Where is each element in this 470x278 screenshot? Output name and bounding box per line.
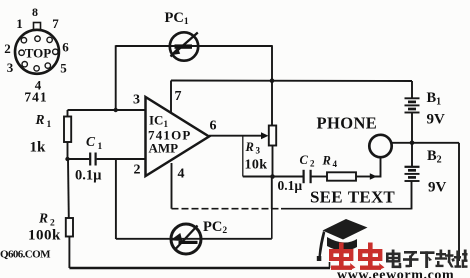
svg-text:741: 741 — [24, 90, 47, 105]
pin dot 6 — [53, 49, 58, 54]
pin dot 1 — [21, 38, 26, 43]
svg-text:PC1: PC1 — [165, 10, 189, 27]
watermark chongchong red characters — [329, 243, 385, 270]
wire top rail — [116, 45, 272, 47]
svg-text:6: 6 — [62, 40, 69, 55]
svg-text:10k: 10k — [245, 158, 268, 173]
wire feedback vertical — [271, 45, 273, 126]
capacitor C2 — [304, 170, 327, 183]
node junction R3 bottom — [270, 174, 275, 179]
svg-text:0.1µ: 0.1µ — [75, 168, 102, 184]
svg-text:C: C — [300, 153, 309, 167]
IC package top-view circle 741 — [15, 23, 59, 74]
ground rail bottom — [69, 267, 330, 270]
char zi — [403, 251, 419, 267]
watermark site name characters — [386, 250, 468, 269]
earphone PHONE — [369, 135, 391, 157]
pin dot 3 — [22, 61, 27, 66]
junction arrow — [370, 173, 377, 180]
photocell PC1 — [170, 32, 198, 60]
node junction R1/C1 — [65, 157, 69, 161]
wire phone to right rail — [392, 142, 460, 144]
svg-text:2: 2 — [4, 41, 11, 56]
wire pin3 horizontal — [68, 109, 146, 111]
wire B1 to B2 — [411, 113, 413, 167]
svg-text:100k: 100k — [28, 228, 61, 244]
svg-text:PC2: PC2 — [203, 219, 227, 236]
resistor R4 — [327, 172, 370, 180]
char zhan — [454, 250, 468, 268]
svg-text:5: 5 — [60, 61, 67, 76]
battery B2 — [405, 167, 420, 181]
pin dot 5 — [45, 63, 50, 68]
node junction V+ rail — [270, 78, 275, 83]
char xia — [420, 251, 435, 268]
battery B1 — [405, 98, 420, 112]
pin dot 4 — [34, 66, 39, 71]
svg-text:4: 4 — [333, 159, 338, 169]
svg-text:9V: 9V — [427, 112, 446, 128]
svg-text:SEE TEXT: SEE TEXT — [310, 188, 395, 207]
svg-text:TOP: TOP — [25, 46, 52, 61]
node junction left rail / pin3 wire — [114, 108, 118, 112]
wire C2 node down vertical — [271, 177, 273, 210]
svg-text:R: R — [38, 211, 48, 226]
wire B2 bottom drop — [411, 181, 413, 209]
svg-text:B1: B1 — [427, 90, 442, 108]
resistor R3 body — [269, 126, 276, 177]
label box line — [242, 136, 244, 177]
svg-text:4: 4 — [178, 167, 185, 182]
pin dot 8 — [35, 36, 40, 41]
svg-text:2: 2 — [310, 159, 315, 169]
svg-text:3: 3 — [7, 60, 14, 75]
wire pin7 vertical — [170, 81, 172, 114]
svg-text:3: 3 — [133, 93, 140, 108]
svg-text:www.eeworm.com: www.eeworm.com — [337, 268, 454, 278]
wire right edge vertical — [458, 143, 460, 261]
photocell PC2 — [170, 224, 201, 254]
svg-text:1: 1 — [98, 142, 103, 152]
wire pin4 vertical — [171, 163, 173, 209]
pin dot 7 — [47, 37, 52, 42]
package tab — [34, 23, 41, 31]
svg-text:1: 1 — [16, 16, 23, 31]
svg-text:7: 7 — [52, 16, 59, 31]
wire PC2 horizontal — [116, 238, 272, 240]
wire V+ horizontal to B1 — [171, 80, 412, 83]
node junction rail/phone — [410, 141, 415, 146]
svg-text:1: 1 — [47, 120, 52, 130]
svg-text:1k: 1k — [30, 140, 47, 156]
wire B1 drop — [411, 81, 413, 98]
svg-text:7: 7 — [175, 89, 182, 104]
resistor R1 — [64, 110, 71, 159]
capacitor C1 — [68, 153, 146, 166]
resistor R2 — [66, 159, 73, 268]
svg-text:R: R — [35, 112, 45, 127]
svg-text:B2: B2 — [427, 148, 442, 166]
wire inverting node down vertical — [115, 159, 117, 239]
svg-text:AMP: AMP — [149, 141, 179, 156]
watermark graduation cap — [317, 219, 368, 261]
wire V- dashed run — [172, 208, 282, 210]
char zai — [435, 250, 455, 268]
svg-text:3: 3 — [256, 146, 261, 156]
svg-text:2: 2 — [134, 163, 141, 178]
wire op-amp output — [209, 135, 263, 137]
svg-text:9V: 9V — [428, 180, 447, 196]
wire phone drop — [373, 157, 381, 176]
potentiometer wiper arrow R3 — [261, 132, 269, 139]
wire left rail vertical — [115, 45, 117, 110]
pin dot 2 — [19, 50, 24, 55]
op-amp U1 triangle — [146, 97, 210, 176]
svg-text:R: R — [245, 140, 254, 154]
wire output node horizontal — [243, 176, 303, 178]
svg-text:6: 6 — [210, 119, 217, 134]
svg-text:PHONE: PHONE — [317, 114, 378, 133]
svg-text:R: R — [322, 154, 331, 168]
char dian — [386, 250, 401, 269]
svg-text:Q606.COM: Q606.COM — [0, 249, 51, 261]
svg-text:8: 8 — [32, 5, 38, 19]
svg-text:C: C — [86, 134, 96, 149]
svg-text:0.1µ: 0.1µ — [278, 178, 303, 193]
